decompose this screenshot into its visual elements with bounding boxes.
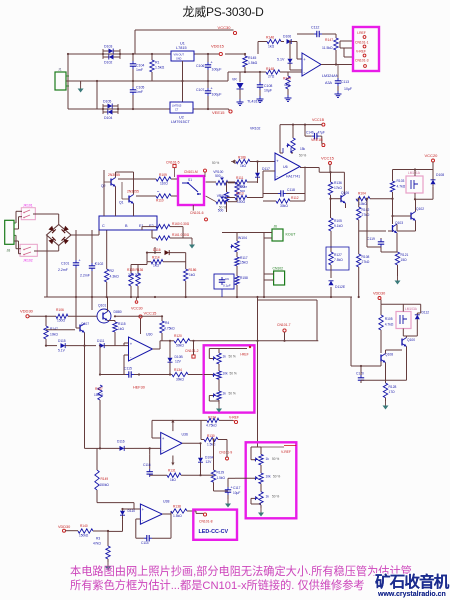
- svg-text:V-REF: V-REF: [229, 415, 239, 419]
- svg-text:D117: D117: [262, 167, 270, 171]
- svg-text:2N3055: 2N3055: [127, 190, 139, 194]
- svg-text:JK102: JK102: [23, 259, 33, 263]
- svg-text:HEF30: HEF30: [133, 386, 145, 390]
- svg-text:C101: C101: [61, 262, 69, 266]
- svg-text:R110: R110: [156, 199, 164, 203]
- svg-text:VCC15: VCC15: [321, 155, 335, 160]
- svg-text:R105: R105: [385, 317, 393, 321]
- svg-text:47μF: 47μF: [318, 131, 325, 135]
- svg-text:C108: C108: [264, 84, 272, 88]
- svg-text:R148: R148: [266, 67, 274, 71]
- svg-text:D103: D103: [104, 45, 112, 49]
- svg-text:C120: C120: [356, 372, 364, 376]
- svg-text:CN101-5: CN101-5: [166, 160, 180, 164]
- svg-text:150kΩ: 150kΩ: [79, 534, 89, 538]
- svg-text:CN102: CN102: [273, 267, 284, 271]
- svg-text:本电路图由网上照片抄画,部分电阻无法确定大小.所有稳压管为估: 本电路图由网上照片抄画,部分电阻无法确定大小.所有稳压管为估计管: [70, 564, 412, 578]
- svg-text:Q103: Q103: [395, 221, 403, 225]
- svg-text:CN101-6: CN101-6: [190, 211, 204, 215]
- svg-text:R4: R4: [165, 321, 169, 325]
- svg-text:R127: R127: [334, 253, 342, 257]
- svg-text:J1: J1: [58, 68, 62, 72]
- svg-text:15Ω: 15Ω: [401, 258, 408, 262]
- svg-text:LM101A: LM101A: [408, 171, 421, 175]
- svg-text:1kΩ: 1kΩ: [118, 327, 124, 331]
- svg-text:20Ω 20Ω: 20Ω 20Ω: [128, 273, 141, 277]
- svg-text:Q2: Q2: [101, 184, 106, 188]
- svg-text:R128: R128: [389, 385, 397, 389]
- svg-text:1mF: 1mF: [136, 68, 143, 72]
- svg-text:1kΩ: 1kΩ: [189, 273, 195, 277]
- svg-text:1kΩ: 1kΩ: [240, 164, 246, 168]
- svg-text:4.75kΩ: 4.75kΩ: [164, 327, 175, 331]
- svg-text:CN101-M: CN101-M: [184, 170, 198, 174]
- svg-text:D104: D104: [104, 116, 112, 120]
- svg-text:D112: D112: [422, 311, 430, 315]
- svg-text:LM7915: LM7915: [172, 104, 182, 108]
- svg-text:2.2mF: 2.2mF: [58, 268, 68, 272]
- svg-text:VIN OUT: VIN OUT: [174, 53, 185, 57]
- svg-text:1kΩ: 1kΩ: [153, 264, 159, 268]
- svg-text:1kΩ: 1kΩ: [268, 45, 275, 49]
- svg-text:C9: C9: [225, 277, 229, 281]
- svg-text:VDD30: VDD30: [373, 292, 385, 296]
- svg-text:D110: D110: [128, 509, 136, 513]
- svg-text:CN101-1: CN101-1: [355, 41, 369, 45]
- svg-text:C118: C118: [287, 188, 295, 192]
- svg-text:1k: 1k: [266, 495, 270, 499]
- svg-text:LM7915CT: LM7915CT: [171, 120, 190, 124]
- svg-text:R107: R107: [95, 387, 103, 391]
- svg-text:R3: R3: [96, 537, 100, 541]
- svg-text:R130: R130: [207, 434, 215, 438]
- svg-text:47kΩ: 47kΩ: [93, 542, 101, 546]
- svg-text:D105: D105: [103, 100, 111, 104]
- svg-text:C116: C116: [143, 463, 151, 467]
- svg-text:D115: D115: [58, 339, 66, 343]
- svg-text:L7815: L7815: [176, 46, 187, 50]
- svg-text:TL431CP: TL431CP: [247, 100, 264, 104]
- svg-text:HA17741: HA17741: [286, 175, 300, 179]
- svg-text:100μF: 100μF: [212, 68, 222, 72]
- svg-text:50 %: 50 %: [229, 392, 236, 396]
- svg-text:VCC20: VCC20: [425, 153, 439, 158]
- svg-text:0.1μF: 0.1μF: [223, 284, 231, 288]
- svg-text:J6: J6: [274, 225, 278, 229]
- svg-text:VCC30: VCC30: [131, 307, 143, 311]
- svg-text:D880: D880: [114, 310, 122, 314]
- svg-text:110Ω: 110Ω: [160, 182, 168, 186]
- svg-text:U36: U36: [182, 433, 188, 437]
- svg-text:LED-CC-CV: LED-CC-CV: [199, 529, 229, 535]
- svg-text:100Ω: 100Ω: [237, 200, 246, 204]
- svg-text:4.3kΩ: 4.3kΩ: [110, 275, 120, 279]
- svg-text:S1: S1: [188, 178, 192, 182]
- svg-text:R135 R136: R135 R136: [127, 268, 143, 272]
- svg-text:R115: R115: [118, 322, 126, 326]
- svg-text:R161 0.30Ω: R161 0.30Ω: [172, 233, 190, 237]
- svg-text:R129: R129: [217, 471, 225, 475]
- svg-text:50 %: 50 %: [299, 154, 306, 158]
- svg-text:15k: 15k: [300, 147, 306, 151]
- svg-text:Q108: Q108: [385, 353, 393, 357]
- svg-text:10k: 10k: [223, 372, 229, 376]
- svg-text:50 %: 50 %: [229, 355, 236, 359]
- svg-text:R103: R103: [397, 179, 405, 183]
- svg-text:Q100: Q100: [407, 338, 415, 342]
- svg-text:VDD30: VDD30: [20, 309, 34, 314]
- svg-text:D116: D116: [117, 440, 125, 444]
- svg-text:R120: R120: [174, 334, 182, 338]
- svg-text:C106: C106: [196, 64, 204, 68]
- svg-text:CN101-7: CN101-7: [277, 323, 291, 327]
- svg-text:9.1kΩ: 9.1kΩ: [334, 224, 343, 228]
- svg-text:15kΩ: 15kΩ: [240, 261, 248, 265]
- svg-text:D102: D102: [104, 61, 112, 65]
- svg-text:D116: D116: [153, 248, 161, 252]
- svg-text:27kΩ: 27kΩ: [362, 260, 370, 264]
- svg-text:C: C: [102, 224, 105, 228]
- svg-text:17Ω: 17Ω: [389, 390, 396, 394]
- svg-text:R186: R186: [189, 268, 197, 272]
- svg-text:J8: J8: [7, 249, 11, 253]
- svg-text:500: 500: [218, 209, 224, 213]
- svg-text:Q101: Q101: [98, 304, 106, 308]
- svg-text:U6: U6: [283, 165, 288, 169]
- svg-text:4kΩ: 4kΩ: [284, 83, 290, 87]
- svg-text:R117: R117: [240, 256, 248, 260]
- svg-text:D10B: D10B: [175, 355, 184, 359]
- svg-text:50 %: 50 %: [273, 475, 280, 479]
- svg-text:R109: R109: [159, 173, 167, 177]
- svg-text:5.1V: 5.1V: [58, 349, 66, 353]
- svg-text:D10A: D10A: [205, 456, 214, 460]
- svg-text:7.5kΩ: 7.5kΩ: [334, 258, 343, 262]
- svg-text:A3A: A3A: [325, 81, 333, 85]
- svg-text:CN101-9: CN101-9: [219, 450, 232, 454]
- svg-text:R160 0.30Ω: R160 0.30Ω: [172, 222, 190, 226]
- svg-text:50 %: 50 %: [272, 495, 279, 499]
- svg-text:E2: E2: [149, 224, 154, 228]
- svg-text:1mF: 1mF: [136, 90, 143, 94]
- svg-text:R112: R112: [291, 196, 299, 200]
- svg-text:10k: 10k: [266, 475, 272, 479]
- svg-text:R131: R131: [168, 469, 176, 473]
- svg-text:4.7kΩ: 4.7kΩ: [385, 323, 394, 327]
- svg-text:R158: R158: [240, 276, 248, 280]
- svg-text:VCC15: VCC15: [144, 311, 158, 316]
- svg-text:500: 500: [215, 174, 221, 178]
- svg-text:1.5kΩ: 1.5kΩ: [155, 66, 165, 70]
- svg-text:R140: R140: [80, 524, 88, 528]
- svg-text:R1: R1: [155, 61, 160, 65]
- svg-text:R149: R149: [101, 477, 109, 481]
- svg-text:R186: R186: [238, 156, 246, 160]
- svg-text:4.7kΩ: 4.7kΩ: [397, 185, 406, 189]
- svg-text:1k: 1k: [223, 355, 227, 359]
- svg-text:R147: R147: [325, 38, 333, 42]
- svg-text:R113: R113: [236, 192, 244, 196]
- svg-text:59kΩ: 59kΩ: [176, 344, 184, 348]
- svg-text:Q1: Q1: [119, 201, 124, 205]
- svg-text:39kΩ: 39kΩ: [176, 378, 184, 382]
- svg-text:1kΩ: 1kΩ: [170, 478, 176, 482]
- svg-text:VR102: VR102: [250, 127, 260, 131]
- svg-text:D111: D111: [97, 339, 105, 343]
- svg-text:I-REF: I-REF: [240, 353, 249, 357]
- svg-text:C114: C114: [141, 541, 149, 545]
- svg-text:R147: R147: [50, 327, 58, 331]
- svg-text:所有紫色方框为估计...都是CN101-x所链接的. 仅供维: 所有紫色方框为估计...都是CN101-x所链接的. 仅供维修参考: [70, 578, 365, 592]
- svg-text:W104: W104: [238, 236, 247, 240]
- svg-text:5.1V: 5.1V: [277, 58, 285, 62]
- svg-text:R114: R114: [152, 256, 160, 260]
- svg-text:1.5kΩ: 1.5kΩ: [173, 514, 182, 518]
- svg-text:VEE1B: VEE1B: [311, 138, 323, 142]
- svg-text:1k: 1k: [223, 392, 227, 396]
- svg-text:Q106: Q106: [341, 191, 349, 195]
- svg-text:C105: C105: [136, 86, 144, 90]
- svg-text:R104: R104: [358, 192, 366, 196]
- svg-text:2.2mF: 2.2mF: [80, 274, 90, 278]
- svg-text:C119: C119: [367, 237, 375, 241]
- svg-text:VCC30: VCC30: [218, 25, 232, 30]
- svg-text:C146: C146: [306, 131, 314, 135]
- svg-text:VR: VR: [232, 78, 237, 82]
- svg-text:C102: C102: [95, 262, 103, 266]
- svg-text:50 %: 50 %: [212, 161, 219, 165]
- svg-text:D108: D108: [436, 173, 444, 177]
- svg-text:R138: R138: [173, 505, 181, 509]
- svg-text:10kΩ: 10kΩ: [50, 333, 58, 337]
- svg-text:10kΩ: 10kΩ: [359, 202, 367, 206]
- svg-text:150Ω: 150Ω: [57, 319, 66, 323]
- svg-text:17kΩ: 17kΩ: [334, 186, 342, 190]
- svg-text:U38: U38: [163, 500, 169, 504]
- svg-text:R111: R111: [236, 176, 244, 180]
- svg-text:D106: D106: [283, 35, 291, 39]
- svg-text:R106: R106: [56, 308, 64, 312]
- svg-text:150kΩ: 150kΩ: [100, 483, 110, 487]
- svg-text:GND: GND: [176, 57, 182, 60]
- svg-text:100μF: 100μF: [212, 93, 222, 97]
- svg-text:U30: U30: [146, 333, 152, 337]
- svg-text:50 %: 50 %: [230, 372, 237, 376]
- svg-text:10μF: 10μF: [344, 87, 352, 91]
- svg-text:www.crystalradio.cn: www.crystalradio.cn: [377, 591, 446, 598]
- svg-text:R108: R108: [362, 255, 370, 259]
- svg-text:D112E: D112E: [335, 285, 346, 289]
- svg-text:R102: R102: [362, 208, 370, 212]
- svg-text:C107: C107: [196, 88, 204, 92]
- svg-text:4.75kΩ: 4.75kΩ: [206, 424, 217, 428]
- svg-text:KOUT: KOUT: [286, 233, 297, 237]
- svg-text:CT: CT: [175, 108, 179, 111]
- svg-text:C115: C115: [124, 367, 132, 371]
- svg-text:11.5kΩ: 11.5kΩ: [322, 46, 333, 50]
- svg-text:R134: R134: [174, 368, 182, 372]
- svg-text:VCC1B: VCC1B: [312, 118, 325, 122]
- svg-text:R146: R146: [266, 36, 274, 40]
- svg-text:I-REF: I-REF: [357, 31, 366, 35]
- svg-text:27Ω: 27Ω: [268, 75, 275, 79]
- svg-text:C113: C113: [341, 80, 349, 84]
- svg-text:150kΩ: 150kΩ: [94, 393, 104, 397]
- svg-text:CN101-3: CN101-3: [355, 59, 369, 63]
- svg-text:680Ω: 680Ω: [237, 185, 246, 189]
- svg-text:VDD30: VDD30: [58, 525, 70, 529]
- svg-text:1.5kΩ: 1.5kΩ: [217, 476, 226, 480]
- svg-text:Q102: Q102: [416, 207, 424, 211]
- svg-text:30kΩ: 30kΩ: [280, 204, 288, 208]
- svg-text:1.5kΩ: 1.5kΩ: [248, 61, 258, 65]
- svg-text:VDD15: VDD15: [211, 44, 225, 49]
- svg-text:R121: R121: [401, 253, 409, 257]
- svg-text:E1: E1: [139, 224, 144, 228]
- svg-text:27kΩ: 27kΩ: [362, 213, 370, 217]
- svg-text:R144: R144: [283, 77, 291, 81]
- svg-text:50 %: 50 %: [272, 457, 279, 461]
- svg-text:12V: 12V: [175, 360, 182, 364]
- svg-text:R136: R136: [334, 181, 342, 185]
- svg-text:VEE15: VEE15: [212, 110, 225, 115]
- svg-text:矿石收音机: 矿石收音机: [375, 572, 450, 591]
- svg-text:JK101: JK101: [23, 203, 33, 207]
- svg-text:1.5kΩ: 1.5kΩ: [207, 442, 216, 446]
- svg-text:V-REF: V-REF: [356, 50, 366, 54]
- svg-text:12V: 12V: [206, 460, 213, 464]
- svg-text:1k: 1k: [266, 457, 270, 461]
- svg-text:C112: C112: [311, 26, 319, 30]
- svg-text:V-REF: V-REF: [281, 450, 291, 454]
- svg-text:C104: C104: [136, 64, 144, 68]
- svg-text:LM103A: LM103A: [405, 307, 418, 311]
- svg-text:R2: R2: [110, 269, 115, 273]
- svg-text:CN101-8: CN101-8: [199, 520, 213, 524]
- svg-text:R105: R105: [334, 219, 342, 223]
- svg-text:10μF: 10μF: [264, 89, 272, 93]
- svg-text:R145: R145: [248, 56, 256, 60]
- svg-text:Q107: Q107: [81, 322, 89, 326]
- svg-text:LM324AN: LM324AN: [322, 74, 339, 78]
- svg-text:10μF: 10μF: [233, 491, 240, 495]
- svg-text:C117: C117: [233, 486, 241, 490]
- svg-text:龙威PS-3030-D: 龙威PS-3030-D: [182, 5, 264, 19]
- svg-text:2N3055: 2N3055: [108, 173, 120, 177]
- svg-text:CN101-2: CN101-2: [185, 349, 199, 353]
